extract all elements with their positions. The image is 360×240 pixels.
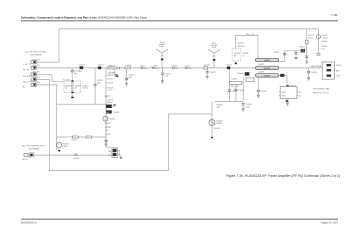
svg-text:ANT: ANT <box>282 91 287 94</box>
svg-text:C4446: C4446 <box>273 52 280 54</box>
svg-text:C4433: C4433 <box>105 134 112 136</box>
svg-text:7-36: 7-36 <box>331 13 337 17</box>
svg-text:100p: 100p <box>232 91 237 93</box>
svg-text:ANT: ANT <box>336 69 341 72</box>
svg-text:50: 50 <box>65 88 68 90</box>
svg-text:100: 100 <box>321 48 325 50</box>
svg-text:C4413: C4413 <box>97 65 104 67</box>
svg-text:R4432: R4432 <box>105 127 112 129</box>
svg-text:FWD: FWD <box>63 146 68 148</box>
svg-text:R4415: R4415 <box>107 75 114 77</box>
svg-text:Figure 7-36. HUD4022A RF Powe: Figure 7-36. HUD4022A RF Power Amplifier… <box>226 174 340 178</box>
svg-text:T4402: T4402 <box>105 147 112 149</box>
svg-text:18p: 18p <box>97 83 101 85</box>
svg-text:33p: 33p <box>79 71 83 73</box>
svg-text:6816952H01-A: 6816952H01-A <box>21 222 37 225</box>
svg-text:E4401: E4401 <box>300 47 307 49</box>
svg-text:GROUNDED PAD: GROUNDED PAD <box>313 88 330 91</box>
svg-text:Schematics, Component Location: Schematics, Component Location Diagrams,… <box>21 15 147 19</box>
svg-text:Q4430: Q4430 <box>109 118 116 120</box>
svg-text:C4411: C4411 <box>79 65 86 67</box>
svg-text:2.2k: 2.2k <box>108 90 113 92</box>
svg-text:W4403: W4403 <box>264 75 271 78</box>
svg-text:INTERFACE: INTERFACE <box>30 54 42 57</box>
svg-text:8.2p: 8.2p <box>165 76 170 78</box>
svg-text:L4415: L4415 <box>107 79 114 81</box>
svg-text:50: 50 <box>299 95 302 97</box>
svg-text:RX: RX <box>299 92 303 94</box>
svg-text:10: 10 <box>242 56 245 58</box>
svg-text:C4439: C4439 <box>231 78 238 80</box>
svg-text:9.3V_TX: 9.3V_TX <box>23 64 32 66</box>
svg-text:August 24, 2007: August 24, 2007 <box>321 222 339 225</box>
svg-text:18p: 18p <box>128 77 132 79</box>
svg-text:100p: 100p <box>245 107 250 109</box>
svg-text:W4401: W4401 <box>264 59 271 62</box>
svg-text:J4402: J4402 <box>336 65 343 67</box>
svg-text:Q4428: Q4428 <box>106 102 113 104</box>
svg-text:C4451: C4451 <box>261 91 268 93</box>
svg-text:LM317: LM317 <box>322 38 329 40</box>
svg-text:ANTENNA: ANTENNA <box>311 65 322 68</box>
svg-text:Q4434: Q4434 <box>237 43 244 45</box>
svg-text:C4445: C4445 <box>238 90 245 92</box>
svg-text:SHEET 37 OF 39: SHEET 37 OF 39 <box>313 92 330 94</box>
svg-text:J4401: J4401 <box>22 159 29 161</box>
svg-text:ALL RF INTERFACES TO: ALL RF INTERFACES TO <box>22 144 46 147</box>
svg-text:ANTENNA: ANTENNA <box>29 147 40 150</box>
svg-text:C4423: C4423 <box>209 72 216 74</box>
svg-text:RVS: RVS <box>212 47 217 49</box>
svg-text:C4458: C4458 <box>73 158 80 160</box>
svg-text:Q4429: Q4429 <box>113 112 120 114</box>
svg-text:100: 100 <box>216 107 220 109</box>
svg-text:18p: 18p <box>74 73 78 75</box>
svg-text:RF: RF <box>234 56 238 58</box>
svg-text:R4448: R4448 <box>321 41 328 43</box>
svg-text:C4422: C4422 <box>204 64 211 66</box>
svg-text:ALL RF DECOUPLING: ALL RF DECOUPLING <box>25 51 47 54</box>
svg-text:A+: A+ <box>23 86 26 89</box>
svg-text:RF_IN: RF_IN <box>23 70 30 72</box>
svg-text:C4424: C4424 <box>226 64 233 66</box>
svg-text:MMBT: MMBT <box>216 123 223 125</box>
svg-text:C4457: C4457 <box>71 140 78 142</box>
svg-text:50: 50 <box>75 88 78 90</box>
svg-text:100: 100 <box>105 130 109 132</box>
svg-text:T4403: T4403 <box>237 73 244 75</box>
svg-text:C4438: C4438 <box>258 72 265 74</box>
svg-text:NP4401: NP4401 <box>237 46 245 48</box>
svg-text:W4_ANT: W4_ANT <box>231 85 240 88</box>
svg-text:W4402: W4402 <box>264 67 271 70</box>
svg-text:SW: SW <box>282 95 285 97</box>
svg-text:C4426: C4426 <box>104 96 111 98</box>
svg-text:R4443: R4443 <box>214 128 221 130</box>
svg-text:W4_OUT: W4_OUT <box>246 34 255 36</box>
svg-text:GND: GND <box>336 76 341 78</box>
svg-text:FWD: FWD <box>159 46 164 48</box>
svg-text:R4431: R4431 <box>105 123 112 125</box>
svg-text:C4455: C4455 <box>107 82 114 84</box>
svg-text:18p: 18p <box>112 72 116 74</box>
svg-text:220n: 220n <box>308 38 313 40</box>
svg-text:C4450: C4450 <box>311 72 318 74</box>
svg-text:1000p: 1000p <box>82 88 89 90</box>
